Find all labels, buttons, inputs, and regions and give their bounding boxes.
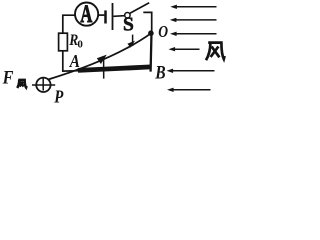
wind arrow 2	[174, 19, 216, 21]
sensor P horizontal axis	[32, 84, 55, 86]
label P	[53, 87, 64, 106]
sensor P vertical axis	[42, 78, 44, 90]
svg-text:S: S	[123, 15, 134, 36]
svg-text:A: A	[69, 51, 80, 71]
resistor R0	[59, 33, 68, 51]
arrowhead on diagonal lower	[97, 55, 107, 64]
wind arrow 3	[174, 33, 217, 35]
arrowhead on diagonal upper	[127, 41, 135, 48]
wind arrow 5	[171, 70, 215, 72]
character wind	[206, 43, 225, 61]
svg-text:0: 0	[77, 38, 83, 50]
switch S blade	[130, 3, 149, 13]
wind arrow 1	[175, 6, 217, 8]
wire battery to switch	[113, 15, 124, 18]
svg-text:F: F	[2, 66, 14, 88]
wind arrow 6	[172, 89, 211, 91]
ammeter U1	[75, 3, 98, 26]
label node B	[154, 62, 165, 83]
rod OB	[149, 32, 152, 72]
bar AB (thick lever)	[78, 67, 151, 71]
svg-text:O: O	[158, 22, 168, 41]
tick mark on diagonal at bar	[103, 56, 105, 79]
switch S hinge contact	[125, 13, 130, 18]
label wind subscript glyph	[17, 80, 26, 88]
node O junction dot	[148, 30, 154, 36]
battery cell long plate	[112, 3, 114, 30]
label node O	[158, 22, 168, 41]
label R0	[68, 32, 78, 49]
label A ammeter letter	[80, 0, 92, 28]
wire R0 bottom to node A	[63, 51, 80, 71]
svg-text:B: B	[154, 62, 165, 83]
wire ammeter left lead	[63, 15, 75, 33]
label node A	[69, 51, 80, 71]
wire switch to right corner	[143, 12, 151, 32]
label F wind force	[2, 66, 14, 88]
wire ammeter right lead	[98, 14, 104, 16]
svg-text:P: P	[53, 87, 64, 106]
tick mark upper on diagonal	[132, 35, 134, 46]
battery cell short plate	[104, 10, 107, 23]
wind arrow 4	[173, 48, 200, 50]
sensor P body circle	[36, 78, 50, 92]
svg-text:A: A	[80, 0, 92, 28]
wire diagonal link P to O	[48, 33, 151, 79]
